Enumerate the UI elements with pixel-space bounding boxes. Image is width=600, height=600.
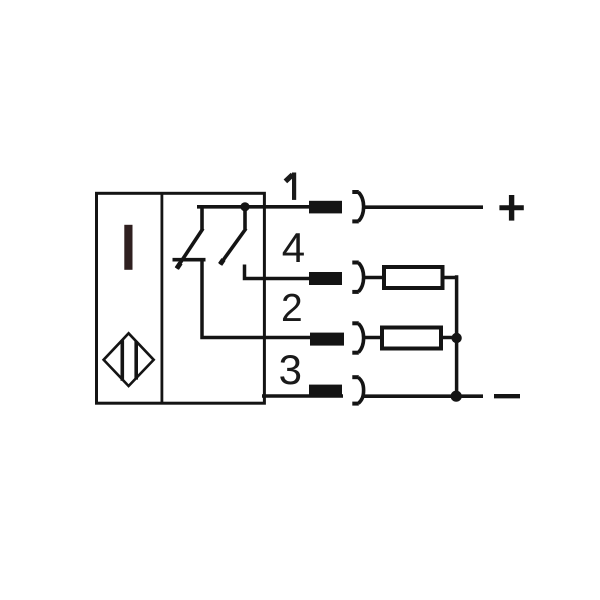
wire: resistor R2 to bus xyxy=(443,336,458,340)
load resistor R2 xyxy=(382,328,441,349)
connector contact arc pin 1 xyxy=(358,192,363,221)
minus terminal xyxy=(494,394,520,398)
contact S1 blade tail tick xyxy=(177,263,181,269)
contact S2 blade (diagonal) xyxy=(220,229,246,265)
sensor body divider xyxy=(160,192,163,403)
junction dot bus/R2 xyxy=(451,333,461,343)
sensing element bar I xyxy=(124,225,132,270)
wire: pin 2 arc to load resistor R2 xyxy=(363,336,381,340)
plus terminal xyxy=(499,205,523,210)
pin 1 terminal block xyxy=(309,201,342,214)
bus wire (vertical) xyxy=(455,275,459,396)
contact S2 fixed lead (vertical) xyxy=(243,207,247,229)
connector contact arc pin 2 xyxy=(358,324,363,353)
wire: resistor R1 to bus xyxy=(444,276,458,280)
pin 2 label xyxy=(281,289,303,328)
wire: contact S2 terminal to pin 4 xyxy=(245,265,310,279)
sensor body outline xyxy=(97,193,265,403)
wire: pin 1 to plus terminal xyxy=(362,205,483,209)
diamond inner left bar xyxy=(121,340,125,381)
pin 2 terminal block xyxy=(310,333,344,346)
diamond inner right bar xyxy=(134,341,138,379)
contact S1 blade (diagonal) xyxy=(177,229,204,269)
junction dot on top rail xyxy=(240,202,249,211)
wire: pin 3 from sensor body xyxy=(262,394,343,398)
contact S1 terminal bar xyxy=(173,258,206,262)
wire: pin 4 arc to load resistor R1 xyxy=(363,276,383,280)
contact S1 fixed lead (vertical) xyxy=(200,207,204,230)
connector contact arc pin 3 xyxy=(358,377,363,403)
pin 4 label xyxy=(282,227,305,269)
pin 3 terminal block xyxy=(309,385,342,397)
pin 3 label xyxy=(279,349,302,391)
pin 4 terminal block xyxy=(309,272,342,285)
wire: pin 3 to minus terminal xyxy=(363,394,483,398)
connector contact arc pin 4 xyxy=(358,263,363,292)
contact S2 blade tail tick xyxy=(220,260,223,265)
load resistor R1 xyxy=(384,267,443,288)
junction dot bus/pin3 xyxy=(451,391,462,402)
wire: contact S1 to pin 2 xyxy=(202,261,310,338)
wire: top rail to pin 1 xyxy=(197,205,310,209)
inductive proximity sensor symbol (diamond) xyxy=(104,333,154,386)
